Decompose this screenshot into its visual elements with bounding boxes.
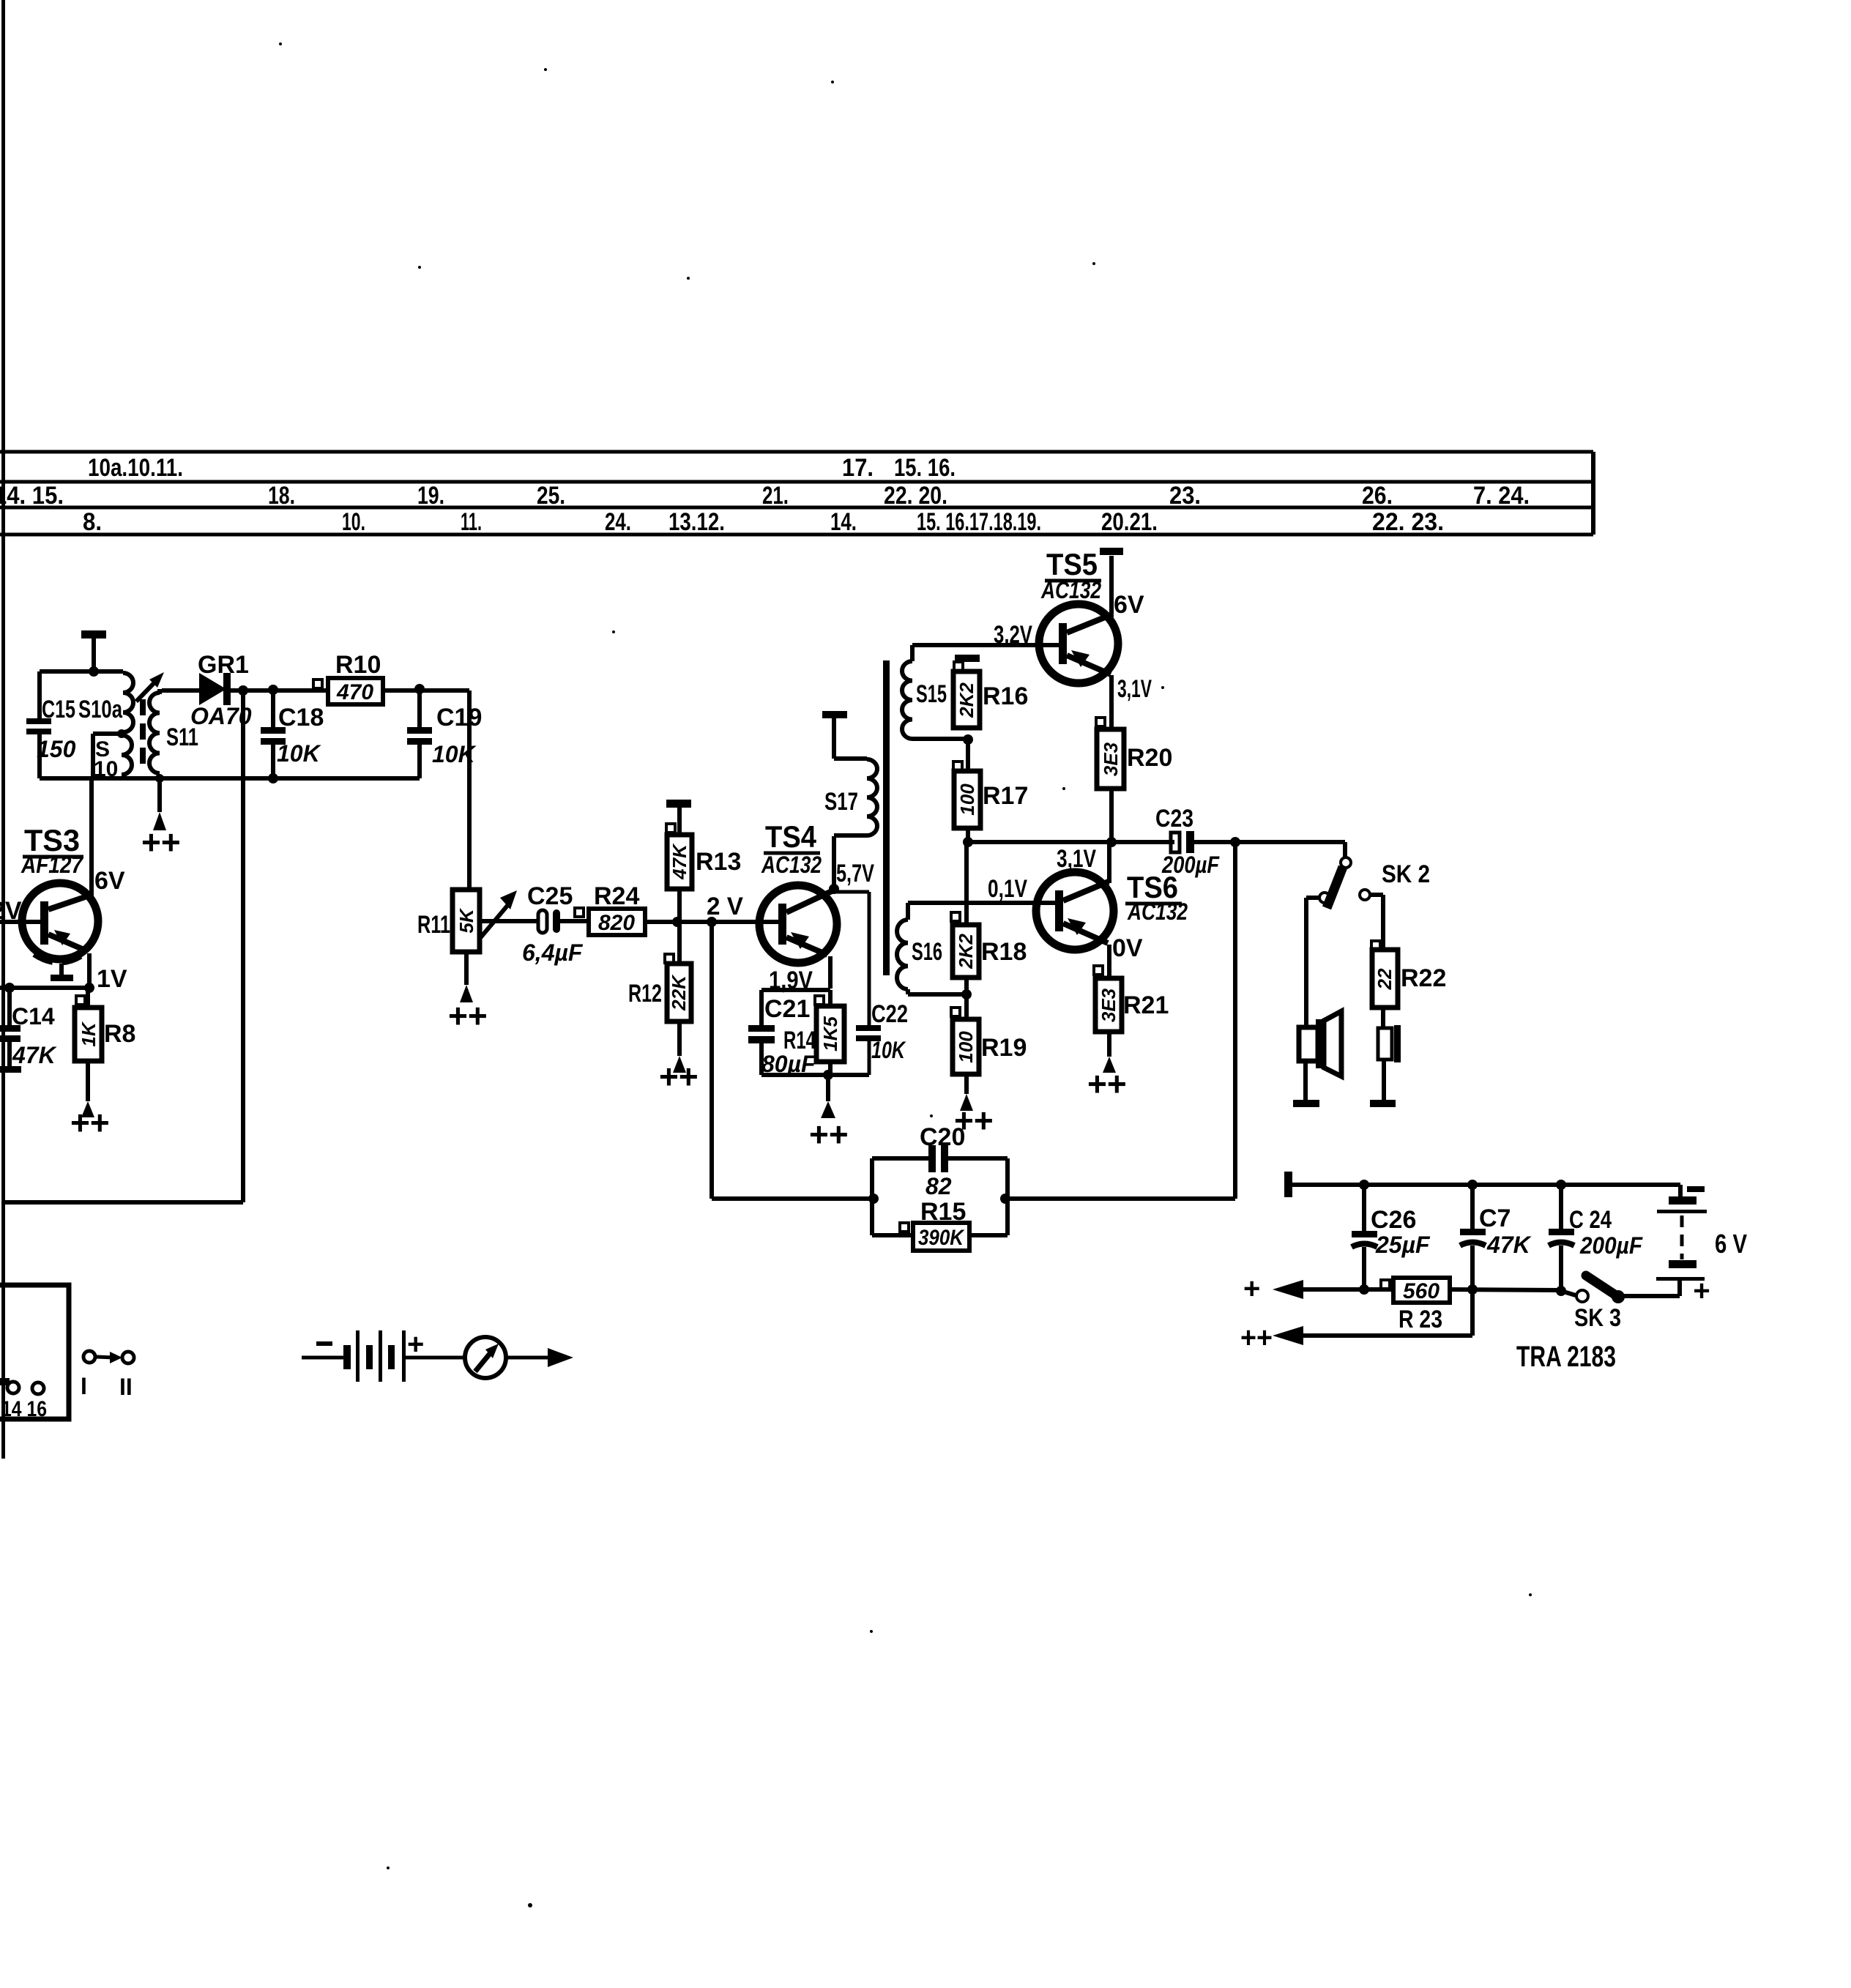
node C18 top: [268, 685, 278, 695]
svg-text:1K: 1K: [78, 1021, 100, 1046]
svg-text:R18: R18: [981, 938, 1027, 966]
wire SK2 to R22: [1370, 895, 1383, 950]
capacitor C21 / resistor R14 loop: [748, 990, 869, 1077]
svg-text:22. 23.: 22. 23.: [1372, 508, 1444, 536]
node 1V: [84, 983, 94, 993]
svg-text:5,7V: 5,7V: [836, 860, 874, 887]
svg-text:I: I: [81, 1373, 87, 1399]
node 2V feedback tap: [707, 917, 717, 927]
wire top edge of C15/S10a loop: [40, 669, 123, 674]
svg-text:TS5: TS5: [1046, 547, 1098, 581]
TS3 shield ground: [34, 953, 86, 981]
svg-text:AF127: AF127: [21, 852, 84, 878]
node C24 top: [1556, 1180, 1566, 1190]
resistor R21: [1094, 966, 1169, 1032]
node C26 bottom: [1359, 1284, 1369, 1295]
svg-text:++: ++: [448, 997, 488, 1035]
wire AGC vertical down: [241, 690, 245, 1202]
wire S15 bottom to node: [912, 737, 968, 741]
node C18 bottom: [268, 773, 278, 783]
++ terminal below R8: [70, 1061, 110, 1142]
svg-text:21.: 21.: [762, 482, 789, 510]
svg-text:8.: 8.: [83, 508, 102, 536]
wire R23 to SK3: [1450, 1289, 1561, 1290]
svg-text:20.21.: 20.21.: [1101, 508, 1158, 536]
svg-text:R13: R13: [696, 848, 741, 876]
resistor R20: [1096, 718, 1172, 789]
svg-text:25µF: 25µF: [1375, 1232, 1431, 1258]
wire S11 to GR1: [162, 688, 200, 693]
svg-text:5K: 5K: [455, 907, 477, 933]
capacitor C23: [1155, 805, 1220, 878]
wire down to R11: [467, 690, 472, 890]
ground below speaker: [1293, 1061, 1319, 1107]
transistor TS5 AC132: [1039, 547, 1118, 683]
supply terminal bar: [1284, 1172, 1292, 1197]
capacitor C14: [0, 988, 58, 1073]
svg-text:10a.10.11.: 10a.10.11.: [88, 454, 183, 482]
svg-text:R24: R24: [594, 882, 639, 910]
resistor R14: [783, 990, 844, 1075]
svg-text:C25: C25: [527, 882, 573, 910]
wire S17 top: [834, 756, 867, 761]
svg-text:47K: 47K: [12, 1042, 58, 1068]
svg-text:R19: R19: [981, 1034, 1027, 1062]
++ terminal below R12: [659, 1021, 699, 1095]
svg-text:11.: 11.: [461, 508, 482, 536]
capacitor C18: [261, 690, 324, 778]
svg-text:++: ++: [1240, 1322, 1273, 1354]
++ output rail: [1240, 1289, 1472, 1354]
capacitor C15: [26, 696, 76, 762]
svg-text:R22: R22: [1401, 964, 1446, 992]
svg-text:AC132: AC132: [761, 852, 822, 878]
svg-text:++: ++: [659, 1057, 699, 1095]
capacitor C19: [407, 689, 482, 778]
svg-text:10K: 10K: [871, 1037, 906, 1063]
svg-text:2K2: 2K2: [956, 682, 977, 718]
svg-text:SK 3: SK 3: [1574, 1304, 1621, 1332]
switch I II: [81, 1351, 134, 1400]
node loop left: [868, 1194, 879, 1204]
wire S16 bottom to node: [908, 992, 967, 997]
coil S10 box: [93, 734, 122, 781]
svg-text:R15: R15: [920, 1198, 966, 1226]
svg-text:26.: 26.: [1362, 482, 1393, 510]
resistor R18: [951, 842, 1027, 994]
resistor R17: [953, 740, 1028, 842]
svg-text:II: II: [119, 1374, 133, 1400]
svg-text:R12: R12: [628, 980, 662, 1008]
wire to R23: [1364, 1287, 1393, 1292]
svg-text:C20: C20: [920, 1123, 965, 1151]
node R18/R19/S16: [961, 989, 972, 999]
svg-text:80µF: 80µF: [761, 1051, 816, 1077]
node C26 top: [1359, 1180, 1369, 1190]
svg-text:6V: 6V: [94, 867, 125, 895]
connector box 1416: [0, 1285, 69, 1421]
wire C25 to R24: [559, 919, 589, 923]
wire 1V rail: [0, 986, 89, 990]
svg-text:82: 82: [925, 1173, 952, 1199]
svg-text:100: 100: [956, 783, 978, 816]
wire TS6 base 0,1V: [908, 901, 1057, 905]
++ terminal below R21: [1087, 1032, 1127, 1103]
wire R24 to TS4 base: [645, 920, 778, 924]
switch SK3: [1561, 1276, 1625, 1332]
svg-text:AC132: AC132: [1127, 898, 1188, 925]
svg-text:++: ++: [1087, 1065, 1127, 1103]
svg-text:R10: R10: [335, 651, 381, 679]
svg-text:C22: C22: [871, 1000, 908, 1028]
svg-text:S15: S15: [916, 680, 947, 708]
wire bottom rail of tuned circuit: [40, 776, 420, 781]
ground below earphone: [1370, 1060, 1396, 1107]
svg-text:390K: 390K: [918, 1226, 965, 1250]
svg-text:18.: 18.: [268, 482, 295, 510]
wire GR1 to node: [230, 688, 243, 693]
resistor R24: [575, 882, 645, 935]
node S10a/S10 tap: [117, 729, 126, 738]
supply terminal above TS5: [1100, 548, 1123, 617]
coil S17: [824, 759, 877, 835]
capacitor C26: [1352, 1185, 1431, 1289]
svg-text:R21: R21: [1123, 991, 1169, 1019]
capacitor C25: [522, 882, 584, 966]
svg-text:R17: R17: [983, 782, 1028, 810]
svg-text:1K5: 1K5: [819, 1016, 841, 1051]
table row3 numbers: [83, 508, 1444, 536]
svg-text:10K: 10K: [277, 740, 322, 767]
resistor R22: [1371, 941, 1446, 1008]
svg-text:13.12.: 13.12.: [668, 508, 725, 536]
coil S10a: [78, 673, 133, 732]
wire to R10: [273, 688, 328, 693]
svg-text:6V: 6V: [1114, 591, 1144, 619]
svg-text:0,1V: 0,1V: [988, 875, 1027, 903]
node C24 bottom: [1556, 1286, 1566, 1296]
node R16/R17: [963, 734, 973, 745]
wire R20 to rail: [1109, 789, 1114, 842]
terminal table frame: [0, 452, 1593, 535]
wire TS6 collector to rail: [1107, 842, 1111, 883]
wire TS3 base: [0, 920, 40, 924]
wire TS3 collector from S10 box: [89, 778, 94, 897]
svg-text:14 16: 14 16: [1, 1397, 47, 1421]
svg-text:22K: 22K: [668, 974, 690, 1011]
svg-text:3E3: 3E3: [1100, 742, 1122, 776]
svg-text:+: +: [1693, 1275, 1710, 1307]
svg-text:R14: R14: [783, 1027, 816, 1054]
svg-text:22. 20.: 22. 20.: [884, 482, 947, 510]
resistor R16: [953, 655, 1028, 728]
capacitor C22: [834, 892, 908, 1075]
svg-text:14. 15.: 14. 15.: [0, 482, 64, 510]
wire SK2 to speaker: [1306, 898, 1319, 1027]
svg-text:10.: 10.: [342, 508, 365, 536]
node C19 top: [414, 684, 425, 694]
wire C20/R15 loop sides: [872, 1158, 1008, 1235]
svg-text:S10a: S10a: [78, 696, 123, 723]
svg-text:0V: 0V: [1112, 934, 1143, 962]
svg-text:+: +: [1243, 1273, 1260, 1305]
node detector output: [238, 685, 248, 696]
++ terminal below R19: [954, 1074, 994, 1139]
ferrite core dashed line: [140, 699, 146, 770]
coil S10: [122, 735, 132, 775]
node loop right: [1000, 1194, 1010, 1204]
svg-text:470: 470: [336, 680, 373, 704]
svg-text:10: 10: [94, 757, 118, 781]
potentiometer R11: [417, 890, 517, 952]
wire R10 to C19 node: [383, 688, 420, 693]
node output rail at TS5/TS6: [1106, 837, 1117, 847]
svg-text:++: ++: [70, 1103, 110, 1142]
coil S11: [149, 689, 198, 773]
table row1 numbers: [88, 454, 956, 482]
wire TS5 base 3,2V: [912, 643, 1060, 647]
wire R10 node to R11 feed corner: [420, 688, 469, 693]
node R13/R12 divider: [672, 917, 682, 927]
svg-text:820: 820: [598, 911, 635, 935]
svg-text:24.: 24.: [605, 508, 631, 536]
coil S16: [897, 903, 942, 989]
dust specks: [279, 42, 1532, 1907]
page edge line: [1, 0, 5, 1459]
svg-text:14.: 14.: [830, 508, 857, 536]
wire C23 to node: [1194, 840, 1235, 844]
svg-text:C15: C15: [42, 696, 75, 723]
svg-text:TRA 2183: TRA 2183: [1516, 1341, 1616, 1373]
resistor R12: [628, 954, 691, 1021]
resistor R8: [75, 988, 135, 1061]
node S11 bottom: [155, 774, 164, 783]
wire speaker node down: [1233, 842, 1237, 1199]
node C7 bottom: [1467, 1284, 1478, 1295]
svg-text:23.: 23.: [1169, 482, 1201, 510]
wire to C18: [243, 688, 273, 693]
svg-text:3,1V: 3,1V: [1117, 675, 1152, 703]
capacitor C20: [872, 1123, 1008, 1199]
svg-text:C7: C7: [1479, 1205, 1511, 1232]
svg-text:++: ++: [141, 823, 181, 861]
wire feedback horizontal: [712, 1196, 874, 1201]
svg-text:2 V: 2 V: [707, 893, 743, 920]
wire R13 to node: [677, 889, 682, 922]
transistor TS6 AC132: [1036, 870, 1188, 950]
wire to SK2: [1235, 840, 1345, 844]
svg-text:100: 100: [955, 1031, 977, 1063]
transistor TS4 AC132: [759, 819, 837, 994]
svg-text:R8: R8: [104, 1020, 135, 1048]
wire TS5 emitter to R20: [1109, 675, 1114, 729]
svg-text:150: 150: [37, 736, 76, 762]
svg-text:AC132: AC132: [1040, 577, 1101, 603]
node 5,7V collector: [829, 884, 839, 894]
tuning arrow: [136, 672, 164, 701]
++ terminal below R14: [809, 1075, 849, 1153]
wire TS4 collector up: [832, 836, 836, 889]
svg-text:200µF: 200µF: [1579, 1232, 1643, 1259]
svg-text:2V: 2V: [0, 897, 22, 925]
svg-text:TS4: TS4: [765, 819, 817, 854]
resistor R10: [313, 651, 383, 704]
svg-text:R20: R20: [1127, 744, 1172, 772]
svg-text:25.: 25.: [537, 482, 565, 510]
wire wiper to C25: [480, 919, 540, 923]
resistor R13: [666, 824, 741, 889]
chassis terminal above R13: [666, 800, 691, 835]
svg-text:7. 24.: 7. 24.: [1473, 482, 1530, 510]
svg-text:47K: 47K: [668, 843, 690, 880]
resistor R19: [951, 994, 1027, 1074]
wire negative top rail: [1289, 1183, 1680, 1187]
switch SK2: [1319, 842, 1430, 908]
svg-text:15. 16.17.18.19.: 15. 16.17.18.19.: [917, 508, 1041, 536]
node C7 top: [1467, 1180, 1478, 1190]
wire S16 corner: [906, 989, 910, 994]
svg-text:S16: S16: [912, 938, 942, 966]
node output rail left: [963, 837, 973, 847]
battery 6V: [1623, 1185, 1747, 1307]
svg-text:C19: C19: [436, 704, 482, 731]
node below R14: [823, 1070, 833, 1080]
svg-text:6,4µF: 6,4µF: [522, 939, 584, 966]
capacitor C24: [1549, 1185, 1643, 1291]
wire TS3 emitter down: [87, 953, 92, 988]
svg-text:S17: S17: [824, 788, 858, 816]
svg-text:R16: R16: [983, 682, 1028, 710]
wire output rail: [968, 840, 1174, 844]
supply terminal above S17: [822, 711, 847, 759]
node C14 top: [4, 983, 15, 993]
resistor R23: [1381, 1278, 1450, 1333]
wire loop to speaker node: [1005, 1196, 1235, 1201]
svg-text:3,1V: 3,1V: [1057, 845, 1096, 873]
++ terminal below R11: [448, 952, 488, 1035]
svg-text:++: ++: [809, 1115, 849, 1153]
svg-text:C21: C21: [764, 995, 810, 1023]
table row2 numbers: [0, 482, 1530, 510]
svg-text:560: 560: [1403, 1279, 1440, 1303]
svg-text:1V: 1V: [97, 965, 127, 993]
svg-text:GR1: GR1: [198, 651, 249, 679]
svg-text:3E3: 3E3: [1098, 988, 1120, 1022]
resistor R15: [872, 1198, 1008, 1251]
wire TS4 emitter down: [828, 956, 833, 989]
node speaker feed: [1230, 837, 1240, 847]
svg-text:19.: 19.: [417, 482, 444, 510]
wire left edge lower: [37, 734, 42, 778]
svg-text:R11: R11: [417, 911, 450, 939]
meter symbol: [465, 1337, 506, 1378]
svg-text:+: +: [407, 1328, 424, 1360]
svg-text:SK 2: SK 2: [1382, 860, 1430, 888]
battery symbol: [302, 1328, 465, 1382]
capacitor C7: [1460, 1185, 1532, 1289]
antenna terminal above S10a: [81, 630, 106, 671]
wire to S17 bottom: [834, 833, 867, 838]
wire meter to arrow: [506, 1348, 573, 1367]
wire bottom return rail: [4, 1200, 243, 1205]
svg-text:C18: C18: [278, 704, 324, 731]
svg-text:C 24: C 24: [1569, 1206, 1612, 1234]
+ output arrow: [1243, 1273, 1364, 1305]
svg-text:17.: 17.: [842, 454, 874, 482]
wire node to R12: [677, 922, 682, 964]
wire feedback vertical from 2V node: [710, 922, 714, 1199]
earphone: [1378, 1008, 1401, 1062]
svg-text:22: 22: [1374, 968, 1396, 990]
node top of tuned circuit: [89, 666, 99, 677]
++ terminal below S11: [141, 780, 181, 861]
svg-text:2K2: 2K2: [955, 934, 977, 969]
svg-text:15. 16.: 15. 16.: [894, 454, 956, 482]
wire left edge upper: [37, 671, 42, 718]
wire TS6 emitter to R21: [1107, 945, 1111, 978]
loudspeaker: [1299, 1011, 1341, 1076]
coil S15: [902, 645, 947, 739]
svg-text:C23: C23: [1155, 805, 1193, 833]
transistor TS3 AF127: [21, 823, 98, 959]
svg-text:C26: C26: [1371, 1206, 1416, 1234]
svg-text:6 V: 6 V: [1715, 1229, 1747, 1259]
diode GR1 OA70: [190, 651, 252, 729]
svg-text:47K: 47K: [1486, 1232, 1532, 1258]
transformer core bar: [883, 660, 890, 975]
svg-text:R 23: R 23: [1399, 1306, 1442, 1333]
svg-text:C14: C14: [12, 1003, 55, 1030]
